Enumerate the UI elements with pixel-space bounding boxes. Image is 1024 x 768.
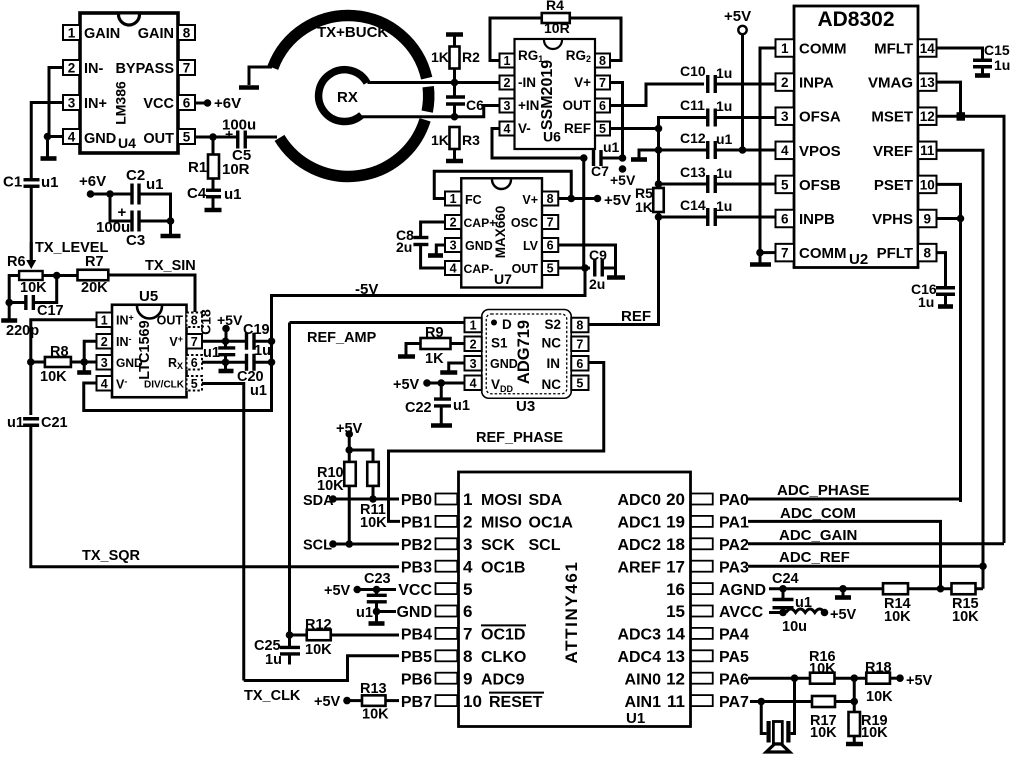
svg-text:10K: 10K (20, 280, 47, 296)
capacitor C3 100u (130, 211, 133, 232)
svg-text:COMM: COMM (799, 41, 847, 58)
U1 pin 17 box (PA3) (691, 561, 713, 572)
svg-text:u1: u1 (356, 605, 373, 621)
svg-text:GND: GND (490, 357, 518, 371)
ground TX coil (239, 85, 259, 90)
resistor R3 1K (450, 127, 460, 149)
resistor R12 10K (286, 631, 294, 639)
svg-text:C18: C18 (198, 309, 214, 335)
junction V- / C7 (580, 154, 588, 162)
svg-text:C4: C4 (187, 185, 207, 202)
svg-text:R1: R1 (188, 159, 207, 176)
svg-text:16: 16 (666, 580, 685, 599)
U2 pin 2 box (INPA) (776, 73, 795, 91)
svg-text:GAIN: GAIN (84, 26, 120, 42)
U1 pin 10 box (PB7) (436, 695, 458, 706)
U4 pin 7 box (178, 60, 195, 75)
U5 pin 1 box (97, 313, 113, 328)
svg-text:1: 1 (463, 490, 472, 509)
svg-text:PB7: PB7 (401, 694, 432, 711)
U4 pin 2 box (63, 60, 80, 75)
svg-text:MSET: MSET (871, 109, 913, 126)
wire R18 to +5V (890, 677, 900, 680)
svg-text:REF_AMP: REF_AMP (307, 330, 377, 346)
svg-text:10K: 10K (884, 609, 911, 625)
capacitor C18 u1 (218, 346, 235, 349)
wire U2 pin1 COMM to ground (760, 48, 776, 253)
U2 pin 13 box (VMAG) (918, 73, 937, 91)
svg-text:12: 12 (920, 109, 935, 124)
wire U4 pin2 to ground (49, 68, 63, 137)
svg-text:PA5: PA5 (719, 649, 749, 666)
U3 pin 2 box (465, 337, 482, 352)
svg-text:PA1: PA1 (719, 515, 749, 532)
U2 pin 8 box (PFLT) (918, 244, 937, 262)
wire node down R19 (853, 678, 856, 712)
svg-text:AREF: AREF (617, 559, 661, 576)
svg-text:5: 5 (781, 177, 789, 192)
svg-text:2u: 2u (589, 276, 605, 292)
svg-text:u1: u1 (41, 174, 59, 191)
wire -5V rail (84, 268, 585, 411)
svg-text:C14: C14 (680, 197, 706, 213)
terminal +5V near C7 (619, 165, 627, 173)
svg-text:8: 8 (599, 54, 606, 68)
wire RX top to SSM2019 -IN (368, 81, 515, 84)
U7 pin 5 box (542, 261, 558, 275)
svg-text:R4: R4 (546, 0, 564, 13)
svg-text:17: 17 (666, 557, 685, 576)
svg-text:MISO: MISO (481, 515, 522, 532)
U7 pin 8 box (542, 192, 558, 206)
svg-text:U2: U2 (849, 251, 868, 268)
svg-text:GND: GND (84, 131, 116, 147)
svg-text:IN-: IN- (84, 61, 104, 77)
svg-text:ADC4: ADC4 (617, 649, 661, 666)
svg-text:7: 7 (599, 76, 606, 90)
svg-text:10: 10 (463, 692, 482, 711)
svg-text:VPOS: VPOS (799, 143, 841, 160)
U3 pin 3 box (465, 356, 482, 371)
wire R10 to SCL line (348, 486, 351, 544)
svg-text:R7: R7 (85, 254, 104, 270)
svg-text:2: 2 (781, 75, 789, 90)
resistor R18 10K (866, 673, 890, 684)
svg-text:14: 14 (920, 41, 936, 56)
U3 pin 5 box (571, 376, 588, 391)
capacitor C20 u1 (245, 354, 248, 371)
ground U4 input (41, 156, 57, 161)
svg-text:U1: U1 (626, 710, 645, 727)
svg-text:1K: 1K (635, 199, 653, 215)
ground C22 (440, 406, 443, 424)
capacitor C1 u1 (24, 178, 40, 181)
U1 pin 14 box (PA4) (691, 628, 713, 639)
U1 pin 1 box (PB0) (436, 494, 458, 505)
U3 pin labels (491, 320, 497, 326)
wire speaker left (761, 702, 766, 734)
U6 pin 5 box (595, 122, 610, 136)
U1 pin 6 box (GND) (436, 606, 458, 617)
svg-text:NC: NC (542, 336, 562, 351)
U7 pin 3 box (445, 238, 461, 252)
ground stub C12 line (639, 150, 659, 158)
U1 pin 8 box (PB5) (436, 650, 458, 661)
wire R6 right junction (43, 274, 78, 277)
wire C20 to -5V drop (254, 361, 272, 364)
svg-text:3: 3 (101, 356, 108, 370)
svg-text:220p: 220p (6, 323, 39, 339)
svg-text:2: 2 (450, 216, 457, 230)
wire U4 pin5 OUT (195, 136, 238, 139)
svg-text:OC1D: OC1D (481, 627, 525, 644)
junction pin2/pin4 (44, 133, 52, 141)
junction REF chain (655, 125, 663, 133)
svg-text:AVCC: AVCC (719, 604, 764, 621)
wire C8 to CAP- (421, 245, 445, 269)
svg-text:1u: 1u (918, 294, 934, 310)
wire U3 VDD to +5V (427, 382, 465, 385)
svg-text:+5V: +5V (217, 312, 243, 328)
svg-text:14: 14 (666, 625, 685, 644)
svg-text:PB0: PB0 (401, 492, 432, 509)
U7 pin 7 box (542, 215, 558, 229)
U2 pin 1 box (COMM) (776, 39, 795, 57)
svg-text:C23: C23 (364, 571, 391, 587)
wire PA1 ADC_COM (748, 521, 941, 588)
wire U5 pin5 DIV/CLK to TX_CLK (202, 384, 244, 681)
wire SSM V- node down to -5V (582, 158, 585, 268)
ground R8 (77, 370, 91, 375)
U5 pin 5 box (187, 376, 203, 391)
U5 pin 4 box (97, 376, 113, 391)
svg-text:9: 9 (923, 211, 931, 226)
wire C2/C3 to ground (139, 194, 171, 234)
svg-text:C2: C2 (126, 167, 145, 184)
svg-text:8: 8 (183, 25, 191, 40)
svg-text:6: 6 (781, 211, 789, 226)
svg-text:u1: u1 (224, 186, 242, 203)
wire PA7 row (750, 700, 812, 703)
wire U7 OUT to C9 and -5V (558, 267, 590, 270)
svg-text:1u: 1u (265, 652, 282, 668)
svg-text:1: 1 (450, 192, 457, 206)
U6 pin 4 box (500, 122, 515, 136)
capacitor C17 220p (24, 295, 27, 310)
wire R11 to SDA line (372, 486, 375, 499)
svg-text:V-: V- (518, 121, 531, 136)
svg-text:OUT: OUT (143, 131, 174, 147)
svg-text:PB6: PB6 (401, 671, 432, 688)
U7 pin 4 box (445, 261, 461, 275)
svg-text:10K: 10K (305, 642, 332, 658)
U3 pin 4 box (465, 376, 482, 391)
svg-text:U4: U4 (118, 135, 136, 151)
wire C23 to GND line (375, 602, 378, 622)
svg-text:C6: C6 (466, 97, 484, 113)
svg-text:ADC9: ADC9 (481, 671, 525, 688)
junction VMAG/MSET (957, 112, 966, 121)
svg-text:4: 4 (450, 262, 457, 276)
svg-text:ADC1: ADC1 (617, 515, 661, 532)
svg-text:4: 4 (781, 143, 789, 158)
capacitor C11 1u (706, 109, 709, 127)
svg-text:15: 15 (666, 602, 685, 621)
U4 pin 4 box (63, 129, 80, 144)
wire VREF down ADC_REF column (937, 150, 984, 566)
U2 pin 14 box (MFLT) (918, 39, 937, 57)
ground C4 (212, 197, 215, 209)
svg-text:8: 8 (463, 647, 472, 666)
svg-text:PA4: PA4 (719, 627, 749, 644)
ground C23 (369, 621, 385, 626)
wire C7 to +5V node (601, 157, 623, 160)
wire +6V to C2/C3 (91, 193, 133, 196)
svg-text:TX+BUCK: TX+BUCK (317, 24, 388, 41)
svg-text:C22: C22 (405, 400, 432, 416)
svg-text:5: 5 (576, 376, 583, 390)
wire R13 to PB7 (386, 699, 400, 702)
junction ADC_COM divider (908, 587, 952, 590)
svg-text:1u: 1u (254, 343, 271, 359)
svg-text:INPA: INPA (799, 75, 834, 92)
svg-text:10K: 10K (952, 609, 979, 625)
U2 pin 3 box (OFSA) (776, 107, 795, 125)
svg-text:PA0: PA0 (719, 492, 749, 509)
svg-text:OFSB: OFSB (799, 177, 841, 194)
svg-text:11: 11 (667, 692, 685, 711)
svg-text:10u: 10u (782, 619, 807, 635)
svg-text:C12: C12 (680, 130, 706, 146)
resistor R2 1K (446, 32, 463, 37)
svg-text:V+: V+ (574, 75, 591, 90)
wire U6 pin4 V- down (492, 129, 584, 159)
svg-text:MFLT: MFLT (874, 41, 913, 58)
wire R15 to ADC_REF (976, 587, 984, 590)
wire PA3 ADC_REF (748, 565, 983, 568)
svg-text:OSC: OSC (511, 216, 538, 230)
svg-text:U5: U5 (139, 288, 158, 305)
wire AGND line (769, 587, 883, 590)
wire VPHS junction (937, 217, 961, 220)
U4 pin 8 box (178, 25, 195, 40)
svg-text:C1: C1 (3, 174, 22, 191)
svg-text:AGND: AGND (719, 582, 766, 599)
inductor 10u AVCC (786, 609, 824, 613)
svg-text:ADC_COM: ADC_COM (780, 505, 856, 522)
U3 pin 6 box (571, 356, 588, 371)
svg-text:R13: R13 (360, 681, 387, 697)
wire C9 to LV/ground (558, 245, 615, 268)
svg-text:u1: u1 (453, 398, 470, 414)
svg-text:ADC_PHASE: ADC_PHASE (777, 482, 870, 499)
capacitor C22 u1 (440, 383, 443, 400)
wire U5 pin6 Rx to C20 (202, 361, 247, 364)
svg-text:20: 20 (666, 490, 685, 509)
resistor R1 10R (212, 137, 215, 157)
wire U3 GND to ground (449, 363, 465, 371)
wire VCC +5V (353, 586, 361, 594)
U4 pin 1 box (63, 25, 80, 40)
capacitor C9 2u (593, 260, 596, 277)
svg-text:C24: C24 (772, 571, 799, 587)
svg-text:VCC: VCC (398, 582, 432, 599)
speaker piezo (766, 721, 770, 743)
U1 pin 13 box (PA5) (691, 650, 713, 661)
svg-text:SSM2019: SSM2019 (539, 60, 556, 130)
svg-text:3: 3 (450, 239, 457, 253)
wire REF chain down to C13 (657, 150, 660, 172)
capacitor C7 u1 (592, 150, 595, 166)
svg-text:REF: REF (564, 121, 591, 136)
wire U2 pin7 COMM (760, 251, 776, 254)
wire C21 down to TX_SQR (31, 426, 399, 567)
wire R17 to node (835, 700, 854, 703)
capacitor C10 1u (706, 75, 709, 93)
svg-text:13: 13 (920, 75, 936, 90)
capacitor C4 u1 (212, 179, 215, 191)
junction C6 / +IN (451, 113, 459, 121)
U1 pin 18 box (PA2) (691, 538, 713, 549)
U6 pin 6 box (595, 99, 610, 113)
svg-text:ATTINY461: ATTINY461 (562, 561, 581, 664)
U2 pin 11 box (VREF) (918, 142, 937, 160)
U4 pin 5 box (178, 129, 195, 144)
svg-text:ADC0: ADC0 (617, 492, 661, 509)
svg-text:ADC2: ADC2 (617, 537, 661, 554)
svg-text:10: 10 (920, 177, 935, 192)
U1 pin 19 box (PA1) (691, 516, 713, 527)
svg-text:+5V: +5V (830, 607, 857, 623)
resistor R15 10K (952, 583, 976, 594)
svg-text:ADC_REF: ADC_REF (779, 549, 850, 566)
U3 pin 7 box (571, 337, 588, 352)
svg-text:C3: C3 (126, 232, 145, 249)
capacitor C15 1u (973, 59, 992, 62)
svg-text:RESET: RESET (489, 694, 543, 711)
U7 pin 6 box (542, 238, 558, 252)
svg-text:PB5: PB5 (401, 649, 432, 666)
wire C12 to VPOS / +5V (715, 149, 775, 152)
junction +5V node (619, 154, 627, 162)
svg-text:8: 8 (576, 319, 583, 333)
wire U4 pin4 to ground (48, 137, 64, 158)
svg-text:PB1: PB1 (401, 515, 432, 532)
svg-text:RX: RX (337, 89, 358, 106)
wire VMAG down to MSET (937, 82, 961, 116)
resistor R13 10K (343, 697, 351, 705)
svg-text:11: 11 (920, 143, 935, 158)
U1 pin 15 box (AVCC) (691, 606, 713, 617)
svg-text:10K: 10K (362, 707, 389, 723)
wire U6 pin6 OUT to C10 (610, 84, 704, 106)
resistor R14 10K (883, 583, 908, 594)
svg-text:REF_PHASE: REF_PHASE (476, 430, 563, 446)
wire R8 right to GND pin (71, 361, 97, 364)
MCU U1 ATTINY461 body (459, 472, 691, 727)
svg-text:u1: u1 (7, 415, 24, 431)
U5 pin 7 box (187, 334, 203, 349)
svg-text:VPHS: VPHS (872, 211, 913, 228)
svg-text:6: 6 (191, 356, 198, 370)
U1 pin 7 box (PB4) (436, 628, 458, 639)
U5 pin 6 box (187, 355, 203, 370)
resistor R16 10K (810, 673, 835, 684)
svg-text:D: D (502, 317, 512, 332)
svg-text:BYPASS: BYPASS (115, 61, 174, 77)
svg-text:3: 3 (463, 535, 472, 554)
svg-text:OC1A: OC1A (529, 515, 574, 532)
svg-text:AIN0: AIN0 (625, 671, 662, 688)
wire REF_AMP to U3 pin1 (290, 321, 465, 324)
svg-text:1: 1 (504, 54, 511, 68)
svg-text:5: 5 (191, 377, 198, 391)
svg-text:1: 1 (101, 313, 108, 327)
svg-text:10K: 10K (810, 725, 837, 741)
U2 pin 12 box (MSET) (918, 107, 937, 125)
svg-text:PSET: PSET (874, 177, 913, 194)
capacitor C19 1u (245, 333, 248, 350)
svg-text:1K: 1K (425, 351, 444, 367)
U3 pin 1 box (465, 318, 482, 333)
svg-text:C15: C15 (984, 42, 1010, 58)
wire U7 V+ to FC loop (558, 197, 571, 200)
svg-text:2: 2 (470, 337, 477, 351)
capacitor C14 1u (706, 208, 709, 226)
svg-text:10K: 10K (861, 725, 888, 741)
svg-text:+: + (225, 126, 233, 142)
wire PA6 row (748, 677, 810, 680)
svg-text:C10: C10 (680, 63, 706, 79)
wire U5 IN+ to C21 line (31, 320, 97, 415)
coil RX inner ring (319, 70, 367, 122)
svg-text:S1: S1 (491, 336, 508, 351)
wire U3 pin6 IN to REF_PHASE (389, 363, 604, 522)
svg-text:MOSI: MOSI (481, 492, 522, 509)
potentiometer R6 10K (26, 260, 36, 269)
U1 pin 12 box (PA6) (691, 673, 713, 684)
wire MFLT to C15 (937, 48, 983, 61)
U6 pin 8 box (595, 54, 610, 68)
svg-text:4: 4 (463, 557, 473, 576)
svg-text:6: 6 (463, 602, 472, 621)
svg-text:GAIN: GAIN (138, 26, 174, 42)
wire C14 line INPB (659, 216, 709, 219)
svg-text:1: 1 (68, 25, 76, 40)
U7 pin 2 box (445, 215, 461, 229)
svg-text:CAP-: CAP- (464, 262, 494, 276)
svg-text:R9: R9 (425, 325, 444, 341)
wire C13 line (659, 183, 709, 186)
svg-text:7: 7 (576, 337, 583, 351)
wire AVCC (769, 611, 783, 614)
svg-text:10K: 10K (866, 689, 893, 705)
svg-text:1K: 1K (431, 49, 449, 65)
svg-text:R18: R18 (865, 660, 892, 676)
wire VPHS/PSET down ADC_PHASE column (959, 219, 962, 503)
svg-text:TX_SIN: TX_SIN (145, 258, 196, 274)
U1 pin 2 box (PB1) (436, 516, 458, 527)
wire REF node down C11 (659, 118, 709, 129)
op-amp U4 LM386 body (80, 13, 178, 153)
resistor R8 10K (45, 357, 71, 367)
svg-text:PFLT: PFLT (877, 245, 913, 262)
svg-text:ADC3: ADC3 (617, 627, 661, 644)
op-amp U6 SSM2019 body (515, 39, 596, 149)
wire MSET net to ADC_GAIN column (937, 116, 1005, 543)
svg-text:-5V: -5V (355, 281, 378, 298)
svg-text:C17: C17 (37, 303, 64, 319)
